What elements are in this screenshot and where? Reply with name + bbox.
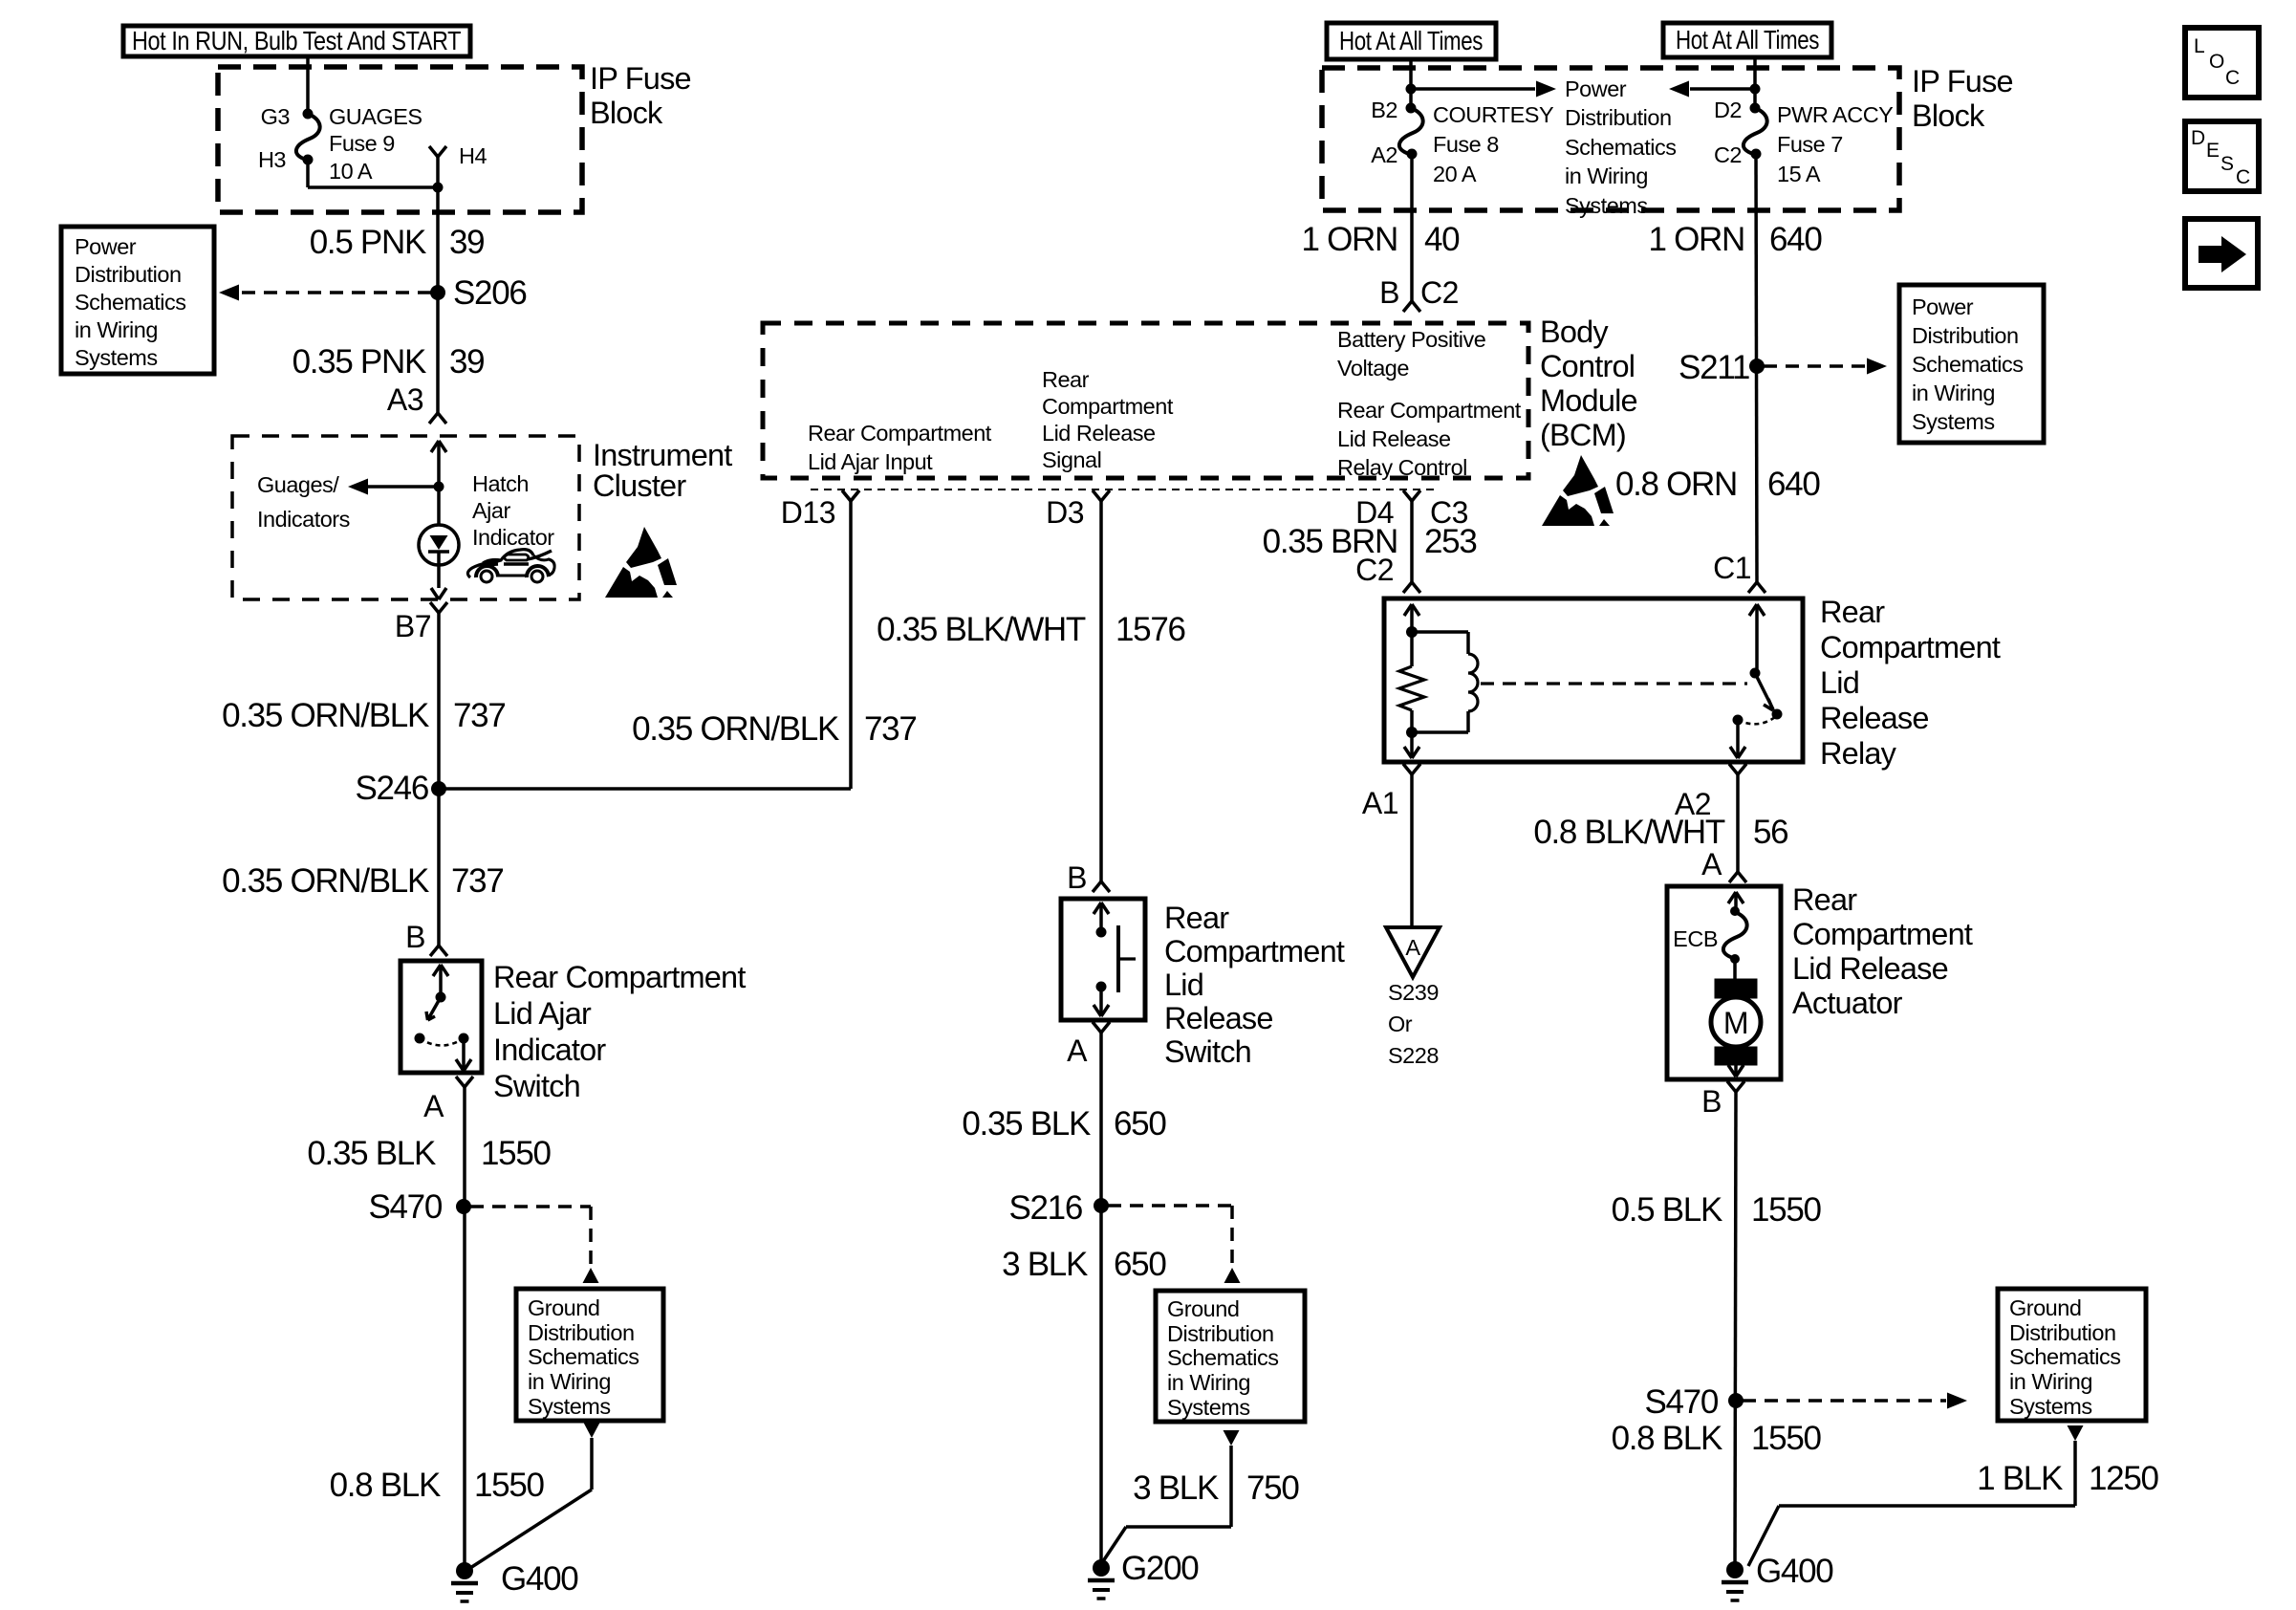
svg-text:1550: 1550 (474, 1467, 544, 1504)
terminal D4 / C3 (1403, 490, 1412, 501)
svg-text:Indicators: Indicators (257, 507, 350, 532)
Power Distribution Schematics box (left) (61, 227, 214, 374)
junction node to Guages/Indicators (434, 482, 444, 492)
svg-text:Systems: Systems (75, 345, 158, 370)
svg-text:S470: S470 (1644, 1383, 1718, 1421)
svg-text:G400: G400 (501, 1560, 578, 1598)
svg-text:Compartment: Compartment (1042, 394, 1174, 419)
svg-text:Power: Power (1565, 76, 1627, 101)
svg-text:Hot At All Times: Hot At All Times (1339, 26, 1483, 55)
svg-text:0.8 BLK/WHT: 0.8 BLK/WHT (1533, 814, 1725, 851)
svg-text:Rear Compartment: Rear Compartment (1337, 398, 1522, 423)
svg-text:H4: H4 (459, 143, 487, 168)
svg-text:in Wiring: in Wiring (528, 1369, 611, 1394)
arrow to Guages/Indicators (367, 485, 439, 489)
Hatch Ajar Indicator LED lamp (419, 525, 459, 565)
Rear Compartment Lid Release Relay box (1384, 598, 1803, 762)
switch upper contact (436, 992, 446, 1003)
svg-text:56: 56 (1753, 814, 1787, 851)
svg-text:Indicator: Indicator (493, 1033, 606, 1067)
svg-text:A3: A3 (387, 382, 423, 417)
switch lower-right contact (459, 1033, 469, 1044)
svg-text:Systems: Systems (1565, 193, 1648, 218)
fuse F8 terminal A2 (1407, 149, 1418, 160)
svg-text:Switch: Switch (1164, 1034, 1251, 1069)
Instrument Cluster dashed box (232, 436, 579, 599)
Body Control Module dashed box (763, 323, 1528, 478)
node to power distribution (courtesy) (1406, 84, 1417, 95)
svg-text:D13: D13 (781, 495, 835, 530)
svg-text:39: 39 (449, 224, 484, 261)
svg-text:in Wiring: in Wiring (1912, 381, 1995, 405)
svg-text:Ground: Ground (1167, 1296, 1239, 1321)
release switch up arrow (1094, 903, 1101, 914)
svg-text:Signal: Signal (1042, 447, 1101, 472)
svg-text:Systems: Systems (1912, 409, 1995, 434)
svg-text:650: 650 (1114, 1105, 1166, 1142)
wire C2 down to relay C1 (1756, 154, 1757, 582)
motor output down arrow (1734, 1065, 1738, 1077)
release switch plunger (1116, 925, 1120, 992)
svg-text:in Wiring: in Wiring (1167, 1370, 1250, 1395)
Ground Distribution box (right) (1998, 1289, 2146, 1421)
terminal A2 (1729, 764, 1738, 774)
svg-text:Control: Control (1540, 349, 1635, 383)
svg-text:C2: C2 (1714, 142, 1742, 167)
svg-text:1550: 1550 (481, 1135, 551, 1172)
IP Fuse Block (left) dashed box (218, 67, 582, 212)
svg-text:ECB: ECB (1673, 926, 1718, 951)
svg-text:Rear Compartment: Rear Compartment (808, 421, 992, 446)
svg-text:Schematics: Schematics (75, 290, 185, 315)
svg-text:Fuse 9: Fuse 9 (329, 131, 395, 156)
BCM connector dashed line (811, 489, 1434, 490)
wire B down to G400 (1735, 1091, 1736, 1570)
splice S470 (left) (456, 1199, 471, 1214)
svg-text:D3: D3 (1046, 495, 1084, 530)
relay switch-side up arrow (1749, 604, 1757, 616)
svg-text:S228: S228 (1388, 1043, 1439, 1068)
svg-text:H3: H3 (258, 147, 286, 172)
wire from ground box (middle) to G200 (1224, 1430, 1240, 1446)
svg-text:Rear: Rear (1042, 367, 1090, 392)
wire fuse to H4 junction (306, 160, 310, 187)
svg-text:Compartment: Compartment (1164, 934, 1345, 968)
svg-text:Schematics: Schematics (2009, 1344, 2120, 1369)
svg-text:Body: Body (1540, 315, 1609, 349)
svg-text:0.35 ORN/BLK: 0.35 ORN/BLK (222, 697, 429, 734)
wire A to S216 and G200 (1099, 1032, 1103, 1571)
svg-text:Switch: Switch (493, 1069, 580, 1103)
terminal D13 (842, 490, 851, 501)
svg-text:1 ORN: 1 ORN (1302, 221, 1397, 258)
svg-text:1576: 1576 (1116, 611, 1185, 648)
svg-text:S216: S216 (1008, 1189, 1082, 1227)
svg-text:Fuse 7: Fuse 7 (1777, 132, 1843, 157)
splice S246 (431, 781, 446, 796)
svg-text:3 BLK: 3 BLK (1002, 1246, 1088, 1283)
svg-text:Rear: Rear (1792, 882, 1857, 917)
svg-text:0.35 BLK: 0.35 BLK (962, 1105, 1091, 1142)
svg-text:253: 253 (1424, 523, 1477, 560)
arrow legend box (2185, 219, 2258, 288)
Rear Compartment Lid Ajar Indicator Switch box (401, 961, 482, 1073)
svg-text:Ground: Ground (528, 1295, 599, 1320)
actuator input up arrow (1728, 892, 1736, 903)
svg-text:S246: S246 (355, 770, 428, 807)
svg-text:0.35 ORN/BLK: 0.35 ORN/BLK (632, 710, 839, 748)
svg-text:0.35 PNK: 0.35 PNK (292, 343, 426, 381)
relay coil-side down arrow (1410, 732, 1414, 758)
relay coil lower node (1406, 727, 1418, 738)
Ground Distribution box (middle) (1156, 1291, 1305, 1422)
svg-text:Distribution: Distribution (1912, 323, 2019, 348)
svg-text:D2: D2 (1714, 98, 1742, 122)
svg-text:750: 750 (1246, 1469, 1299, 1507)
svg-text:0.35 BLK: 0.35 BLK (307, 1135, 436, 1172)
relay output wire with down arrow (1736, 720, 1740, 758)
svg-text:D: D (2191, 127, 2205, 149)
svg-text:737: 737 (864, 710, 917, 748)
svg-text:Hatch: Hatch (472, 471, 529, 496)
svg-text:Systems: Systems (1167, 1395, 1250, 1420)
wire S246 to switch (437, 789, 441, 946)
svg-text:Compartment: Compartment (1820, 630, 2001, 664)
ground G400 (left) (456, 1562, 473, 1579)
svg-text:Power: Power (75, 234, 137, 259)
svg-text:Compartment: Compartment (1792, 917, 1973, 951)
svg-text:640: 640 (1769, 221, 1822, 258)
svg-text:A2: A2 (1371, 142, 1397, 167)
svg-text:B: B (1067, 860, 1087, 895)
svg-text:39: 39 (449, 343, 484, 381)
dashed reference to ground box (middle) (1108, 1204, 1232, 1207)
svg-text:3 BLK: 3 BLK (1133, 1469, 1219, 1507)
svg-text:Hot In RUN, Bulb Test And STAR: Hot In RUN, Bulb Test And START (132, 26, 461, 55)
svg-text:S239: S239 (1388, 980, 1439, 1005)
svg-text:20 A: 20 A (1433, 162, 1477, 186)
switch up arrow (433, 965, 441, 976)
svg-text:A: A (1701, 847, 1722, 881)
svg-text:PWR ACCY: PWR ACCY (1777, 102, 1894, 127)
svg-text:Block: Block (590, 96, 663, 130)
svg-text:Schematics: Schematics (1565, 135, 1676, 160)
wire A2 down to actuator (1736, 773, 1740, 872)
svg-text:Relay Control: Relay Control (1337, 455, 1467, 480)
svg-text:Distribution: Distribution (1167, 1321, 1274, 1346)
splice S206 (430, 285, 445, 300)
ECB upper node (1730, 906, 1740, 916)
svg-text:0.35 BLK/WHT: 0.35 BLK/WHT (877, 611, 1086, 648)
relay switch pivot (1750, 668, 1761, 679)
svg-text:A: A (1405, 935, 1420, 960)
wire from ground box (right) to G400 (2068, 1425, 2084, 1441)
IP Fuse Block (right) dashed box (1322, 68, 1899, 210)
svg-text:G3: G3 (261, 104, 291, 129)
svg-text:COURTESY: COURTESY (1433, 102, 1554, 127)
relay resistor (1410, 632, 1414, 666)
svg-text:C1: C1 (1713, 551, 1751, 585)
svg-text:1550: 1550 (1751, 1191, 1821, 1229)
svg-text:B: B (1379, 275, 1399, 310)
svg-text:737: 737 (451, 862, 504, 900)
relay switch arm (1755, 673, 1773, 709)
svg-text:Release: Release (1820, 701, 1929, 735)
svg-text:737: 737 (453, 697, 506, 734)
svg-text:M: M (1723, 1006, 1748, 1040)
svg-text:0.5 PNK: 0.5 PNK (310, 224, 426, 261)
terminal B7 (430, 602, 439, 613)
wire A2 down to BCM (1410, 154, 1414, 301)
svg-text:in Wiring: in Wiring (75, 317, 158, 342)
svg-text:Voltage: Voltage (1337, 356, 1409, 381)
Ground Distribution box (left) (516, 1289, 663, 1421)
switch output wire with down arrow (462, 1038, 466, 1071)
svg-text:S211: S211 (1679, 349, 1749, 386)
svg-text:S: S (2220, 153, 2234, 175)
terminal A1 (1403, 764, 1412, 774)
svg-text:Actuator: Actuator (1792, 986, 1903, 1020)
svg-text:S470: S470 (368, 1188, 442, 1226)
release switch down arrow (1099, 987, 1103, 1016)
relay contact dashed travel arc (1738, 717, 1775, 724)
svg-text:Rear: Rear (1820, 595, 1885, 629)
svg-text:O: O (2209, 51, 2224, 73)
svg-text:Module: Module (1540, 383, 1637, 418)
svg-text:640: 640 (1767, 466, 1820, 503)
header: Hot At All Times (pwr accy) (1663, 23, 1831, 57)
DESC legend box (2185, 121, 2259, 191)
wire into pwr accy fuse (1753, 57, 1757, 108)
svg-text:(BCM): (BCM) (1540, 418, 1626, 452)
svg-text:Distribution: Distribution (1565, 105, 1672, 130)
wire D4 to relay C2 (1410, 500, 1414, 582)
svg-text:Lid: Lid (1820, 665, 1859, 700)
svg-text:B2: B2 (1371, 98, 1397, 122)
svg-text:Cluster: Cluster (593, 468, 686, 503)
svg-text:G400: G400 (1756, 1553, 1833, 1590)
dashed reference to ground box (470, 1205, 591, 1208)
svg-text:Rear: Rear (1164, 901, 1229, 935)
fuse F7 terminal C2 (1751, 149, 1762, 160)
relay contact (alternate) (1772, 709, 1783, 720)
Power Distribution Schematics box (right) (1899, 285, 2044, 443)
svg-text:E: E (2206, 140, 2220, 162)
svg-text:Lid: Lid (1164, 968, 1203, 1002)
svg-text:Distribution: Distribution (2009, 1320, 2116, 1345)
motor wire (1733, 959, 1737, 979)
wire A to S470 (463, 1086, 466, 1571)
svg-text:0.5 BLK: 0.5 BLK (1612, 1191, 1722, 1229)
relay contact (output) (1733, 715, 1744, 726)
svg-text:A1: A1 (1362, 786, 1398, 820)
svg-text:A: A (423, 1089, 444, 1123)
svg-text:in Wiring: in Wiring (1565, 163, 1648, 188)
svg-text:C: C (2225, 67, 2240, 89)
svg-text:0.8 BLK: 0.8 BLK (1612, 1420, 1722, 1457)
dashed reference wire from S206 to Power Distribution (239, 291, 431, 294)
svg-text:Lid Ajar Input: Lid Ajar Input (808, 449, 933, 474)
svg-text:Ground: Ground (2009, 1295, 2081, 1320)
svg-text:Instrument: Instrument (593, 438, 732, 472)
motor M (1715, 979, 1757, 998)
svg-text:Lid Release: Lid Release (1792, 951, 1948, 986)
fuse F8 element (1399, 108, 1423, 154)
svg-text:Distribution: Distribution (528, 1320, 635, 1345)
Rear Compartment Lid Release Switch box (1061, 899, 1145, 1020)
svg-text:S206: S206 (453, 274, 527, 312)
ground G200 (1093, 1559, 1110, 1577)
svg-text:Indicator: Indicator (472, 525, 554, 550)
svg-text:B: B (1701, 1084, 1722, 1119)
release switch lower contact (1096, 982, 1107, 992)
svg-text:Release: Release (1164, 1001, 1273, 1035)
relay coil upper node (1406, 626, 1418, 638)
ESD symbol (cluster) (605, 527, 677, 598)
splice S470 (right) (1728, 1393, 1744, 1408)
svg-text:Distribution: Distribution (75, 262, 182, 287)
terminal A (lid ajar switch) (456, 1077, 465, 1087)
wire into cluster with up arrow (431, 441, 439, 452)
switch dashed travel arc (420, 1038, 464, 1046)
svg-text:0.8 BLK: 0.8 BLK (330, 1467, 441, 1504)
svg-text:Systems: Systems (528, 1394, 611, 1419)
ECB circuit breaker element (1723, 912, 1747, 958)
down arrow out of cluster (431, 588, 439, 599)
wire from ground box to G400 (584, 1423, 600, 1438)
splice S216 (1094, 1198, 1109, 1213)
fuse F9 GUAGES: terminal G3 (303, 109, 314, 120)
svg-text:G200: G200 (1121, 1550, 1199, 1587)
svg-text:Or: Or (1388, 1012, 1413, 1036)
Rear Compartment Lid Release Actuator box (1667, 886, 1781, 1079)
ECB lower node (1730, 954, 1740, 964)
wire from header into fuse block (306, 56, 310, 114)
svg-text:15 A: 15 A (1777, 162, 1821, 186)
svg-text:Relay: Relay (1820, 736, 1897, 771)
svg-text:Schematics: Schematics (1912, 352, 2023, 377)
terminal A (release switch) (1093, 1022, 1101, 1033)
header label: Hot In RUN, Bulb Test And START (123, 26, 470, 56)
dashed reference from S211 (1764, 364, 1866, 368)
svg-text:0.8 ORN: 0.8 ORN (1615, 466, 1737, 503)
svg-text:Schematics: Schematics (1167, 1345, 1278, 1370)
svg-text:B7: B7 (395, 609, 431, 643)
svg-text:Systems: Systems (2009, 1394, 2092, 1419)
svg-text:L: L (2194, 35, 2204, 57)
relay actuation dashed line (1481, 682, 1747, 685)
car icon (467, 550, 533, 577)
splice S211 (1749, 359, 1765, 374)
fuse F9 element (296, 114, 320, 160)
svg-text:Lid Ajar: Lid Ajar (493, 996, 592, 1031)
fuse F8 COURTESY terminal B2 (1406, 103, 1417, 114)
svg-text:B: B (405, 920, 425, 954)
fuse F9 terminal H3 (303, 155, 314, 165)
svg-text:1550: 1550 (1751, 1420, 1821, 1457)
svg-text:in Wiring: in Wiring (2009, 1369, 2092, 1394)
svg-text:Lid Release: Lid Release (1042, 421, 1156, 446)
svg-text:A: A (1067, 1033, 1088, 1068)
svg-text:Rear Compartment: Rear Compartment (493, 960, 746, 994)
svg-text:Power: Power (1912, 294, 1974, 319)
svg-text:C2: C2 (1355, 553, 1394, 587)
off-page connector A (S239 or S228) (1386, 927, 1440, 977)
wire H4 down to S206 (436, 187, 440, 293)
fuse F7 PWR ACCY terminal D2 (1750, 103, 1761, 114)
wire S206 to A3 (436, 293, 440, 413)
relay coil winding (1412, 630, 1468, 634)
svg-text:Lid Release: Lid Release (1337, 426, 1451, 451)
connector H4 (429, 146, 438, 157)
svg-text:C2: C2 (1420, 275, 1459, 310)
svg-text:Hot At All Times: Hot At All Times (1676, 25, 1819, 54)
svg-text:C: C (2236, 166, 2250, 188)
svg-text:Guages/: Guages/ (257, 472, 339, 497)
LOC legend box (2185, 28, 2259, 98)
svg-text:Fuse 8: Fuse 8 (1433, 132, 1499, 157)
ground G400 (right) (1726, 1561, 1744, 1578)
svg-text:Ajar: Ajar (472, 498, 510, 523)
wire D3 down to release switch (1099, 500, 1103, 881)
svg-text:0.35 ORN/BLK: 0.35 ORN/BLK (222, 862, 429, 900)
svg-text:1 BLK: 1 BLK (1977, 1460, 2063, 1497)
svg-text:Battery Positive: Battery Positive (1337, 327, 1486, 352)
svg-text:40: 40 (1424, 221, 1460, 258)
svg-text:10 A: 10 A (329, 159, 373, 184)
svg-text:1 ORN: 1 ORN (1649, 221, 1744, 258)
wire B7 to S246 (437, 612, 441, 789)
terminal B (actuator) (1727, 1081, 1736, 1092)
node to power distribution (pwr accy) (1750, 84, 1761, 95)
junction dot below H4 (433, 183, 444, 193)
switch lower-left contact (415, 1033, 425, 1044)
svg-text:IP Fuse: IP Fuse (590, 61, 691, 96)
terminal D3 (1093, 490, 1101, 501)
svg-text:IP Fuse: IP Fuse (1912, 64, 2013, 98)
dashed reference to ground box (right) (1743, 1399, 1946, 1403)
wire A1 down to S239/S228 (1410, 773, 1414, 927)
svg-text:GUAGES: GUAGES (329, 104, 422, 129)
switch movable arm (428, 997, 441, 1019)
svg-text:Schematics: Schematics (528, 1344, 639, 1369)
svg-text:650: 650 (1114, 1246, 1166, 1283)
header: Hot At All Times (courtesy) (1327, 23, 1496, 59)
svg-text:Block: Block (1912, 98, 1985, 133)
release switch upper contact (1096, 927, 1107, 938)
wire S246 to BCM D13 (439, 787, 851, 791)
relay coil-side up arrow (1404, 604, 1412, 616)
fuse F7 element (1744, 108, 1767, 154)
svg-text:1250: 1250 (2089, 1460, 2158, 1497)
connector at D13 (842, 490, 851, 501)
wire into courtesy fuse (1409, 59, 1413, 108)
ESD symbol (BCM) (1542, 455, 1614, 526)
